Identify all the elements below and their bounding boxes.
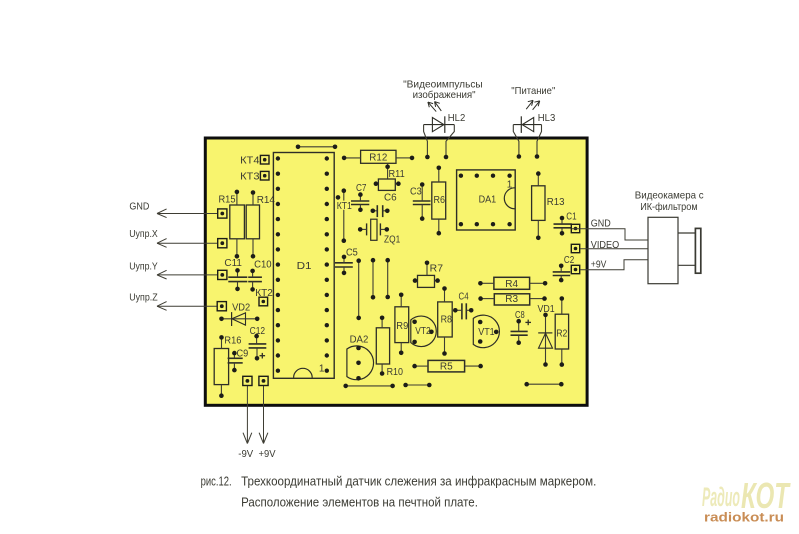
wire GND arrow — [157, 213, 218, 215]
wire HL3 right lead — [537, 125, 542, 157]
svg-text:+9V: +9V — [591, 259, 607, 271]
resistor R9 — [395, 307, 409, 343]
svg-text:КТ3: КТ3 — [240, 171, 260, 182]
svg-text:рис.12.: рис.12. — [201, 474, 232, 489]
resistor R5 — [428, 360, 465, 372]
svg-text:ИК-фильтром: ИК-фильтром — [640, 201, 697, 213]
transistor VT2 — [411, 316, 436, 347]
wire +9V to camera — [580, 260, 648, 270]
svg-text:1: 1 — [319, 364, 325, 375]
IC D1 — [273, 153, 334, 379]
wire HL2 right lead — [446, 125, 454, 157]
resistor R4 — [494, 277, 530, 289]
wire vertical W1 — [358, 261, 360, 318]
svg-text:VT2: VT2 — [415, 326, 431, 337]
svg-text:Uупр.Y: Uупр.Y — [129, 260, 158, 272]
wire HL3 left lead — [513, 125, 519, 157]
svg-text:C11: C11 — [224, 258, 242, 269]
svg-text:"Питание": "Питание" — [511, 85, 555, 97]
camera lens — [695, 228, 700, 273]
svg-text:C4: C4 — [459, 291, 469, 302]
LED HL3 symbol — [513, 124, 541, 126]
resistor R3 — [494, 294, 529, 305]
resistor R8 — [438, 302, 453, 337]
C12 polarity + — [260, 355, 266, 357]
svg-text:C3: C3 — [410, 187, 422, 198]
node Uupr.Y pad — [218, 270, 227, 279]
svg-text:GND: GND — [129, 201, 149, 213]
camera lens barrel — [678, 232, 695, 234]
node -9V pad — [243, 376, 252, 385]
label KT1 — [336, 201, 352, 210]
svg-text:C7: C7 — [356, 183, 367, 194]
node via near KT1 — [336, 195, 341, 200]
svg-text:1: 1 — [507, 179, 513, 190]
svg-text:VT1: VT1 — [478, 327, 495, 338]
svg-text:Uупр.Z: Uупр.Z — [129, 291, 158, 303]
svg-text:Радио: Радио — [702, 482, 740, 512]
svg-text:ZQ1: ZQ1 — [384, 235, 401, 246]
wire HL2 left lead — [424, 125, 428, 157]
node GND pad — [218, 209, 227, 218]
wire Uupr.Z arrow — [157, 305, 217, 307]
node VIDEO pad — [571, 244, 579, 252]
node HL3 pads — [517, 154, 522, 159]
node Uupr.X pad — [218, 239, 227, 248]
resistor R2 — [555, 314, 568, 349]
svg-text:D1: D1 — [297, 261, 312, 272]
HL2 emission arrows — [428, 102, 436, 112]
svg-text:R3: R3 — [505, 294, 518, 305]
svg-text:radiokot.ru: radiokot.ru — [704, 510, 784, 525]
wire test point KT1 — [343, 191, 345, 241]
svg-text:КТ4: КТ4 — [240, 155, 260, 166]
wire bottom middle segment — [406, 384, 430, 386]
svg-text:R6: R6 — [434, 195, 446, 206]
svg-text:Видеокамера с: Видеокамера с — [635, 190, 704, 202]
svg-text:R13: R13 — [547, 197, 565, 208]
svg-text:DA1: DA1 — [479, 195, 497, 206]
node HL2 pads — [425, 155, 430, 160]
HL3 emission arrows — [526, 100, 533, 109]
wire Uupr.Y arrow — [157, 274, 218, 276]
svg-text:Расположение элементов на печт: Расположение элементов на печтной плате. — [241, 495, 478, 510]
wire vertical W3 — [387, 260, 389, 297]
svg-text:R4: R4 — [505, 279, 518, 290]
svg-text:R5: R5 — [440, 362, 453, 373]
svg-text:GND: GND — [591, 217, 611, 229]
node +9V pad — [259, 376, 268, 385]
IC DA1 — [457, 170, 516, 230]
svg-text:изображения": изображения" — [413, 89, 476, 101]
svg-text:VD2: VD2 — [232, 303, 251, 314]
node +9V pad right — [571, 265, 579, 273]
svg-text:C8: C8 — [515, 310, 525, 321]
LED HL2 symbol — [424, 124, 455, 126]
svg-text:R10: R10 — [387, 367, 404, 378]
svg-text:-9V: -9V — [238, 448, 253, 460]
svg-text:HL3: HL3 — [538, 112, 556, 124]
svg-text:Uупр.X: Uупр.X — [129, 228, 158, 240]
svg-text:R7: R7 — [430, 264, 444, 275]
svg-text:R2: R2 — [556, 329, 568, 340]
svg-text:+9V: +9V — [259, 448, 276, 460]
svg-text:HL2: HL2 — [448, 112, 466, 124]
svg-text:КТ1: КТ1 — [337, 201, 353, 212]
svg-text:R15: R15 — [219, 195, 236, 206]
node GND pad right — [571, 224, 579, 232]
board PCB yellow outline — [205, 138, 587, 405]
svg-text:R16: R16 — [224, 336, 241, 347]
svg-text:R12: R12 — [369, 153, 387, 164]
svg-text:C6: C6 — [384, 192, 397, 203]
wire +9V lead — [263, 386, 265, 444]
svg-text:C2: C2 — [564, 255, 575, 266]
transistor VT1 — [473, 315, 499, 348]
node Uupr.Z pad — [217, 302, 226, 311]
resistor R10 — [376, 328, 389, 364]
wire -9V lead — [246, 386, 248, 444]
wire bottom right segment — [527, 383, 562, 385]
camera body — [648, 217, 678, 283]
svg-text:DA2: DA2 — [350, 334, 369, 345]
wire VIDEO to camera — [580, 248, 648, 250]
wire jumper above D1 — [298, 146, 335, 148]
svg-text:C10: C10 — [254, 260, 272, 271]
svg-text:R8: R8 — [441, 314, 453, 325]
svg-text:C1: C1 — [566, 211, 577, 222]
wire Uupr.X arrow — [157, 242, 218, 244]
wire vertical W2 — [372, 260, 374, 297]
wire bottom left segment — [346, 385, 393, 387]
svg-text:C5: C5 — [346, 247, 358, 258]
svg-text:VIDEO: VIDEO — [591, 239, 619, 251]
wire GND to camera — [572, 229, 648, 240]
C8 polarity + — [525, 321, 531, 323]
svg-text:R9: R9 — [396, 321, 408, 332]
svg-text:Трехкоординатный датчик слежен: Трехкоординатный датчик слежения за инфр… — [241, 474, 596, 489]
